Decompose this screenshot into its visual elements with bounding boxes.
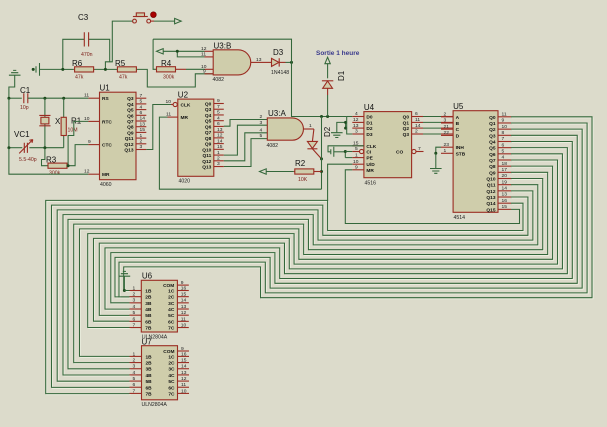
svg-text:Q12: Q12	[202, 159, 211, 165]
svg-text:ULN2804A: ULN2804A	[142, 402, 168, 408]
svg-text:Q10: Q10	[202, 147, 211, 153]
resistor R2 body	[295, 169, 314, 174]
wire RTC link	[68, 121, 88, 165]
svg-text:MR: MR	[102, 172, 110, 178]
svg-text:Q0: Q0	[403, 115, 410, 121]
svg-text:6: 6	[217, 121, 220, 127]
svg-text:Q6: Q6	[205, 124, 212, 130]
svg-text:Q4: Q4	[127, 102, 134, 108]
wire R4 out	[186, 68, 205, 70]
resistor R5 body	[117, 67, 136, 72]
svg-text:11: 11	[502, 112, 507, 118]
svg-text:Sortie 1 heure: Sortie 1 heure	[316, 50, 360, 57]
resistor R6	[74, 68, 75, 70]
svg-text:1: 1	[444, 148, 447, 154]
svg-text:4: 4	[217, 115, 220, 121]
svg-text:7: 7	[133, 388, 136, 394]
wire to 1B	[124, 290, 129, 292]
wire U5.Q4 serpentine to driver input	[106, 142, 573, 310]
svg-text:Q1: Q1	[489, 121, 496, 127]
wire D1 to node	[327, 95, 329, 117]
svg-text:Q9: Q9	[489, 170, 496, 176]
wire to CI pin	[345, 151, 352, 153]
svg-text:3: 3	[217, 161, 220, 167]
svg-text:6C: 6C	[168, 319, 175, 325]
wire R3 to CTC	[68, 145, 89, 166]
svg-text:15: 15	[140, 127, 146, 133]
U2 right pins	[214, 103, 224, 105]
svg-text:3C: 3C	[168, 301, 175, 307]
svg-text:Q15: Q15	[486, 207, 495, 213]
svg-text:3: 3	[133, 364, 136, 370]
ground GND1	[9, 70, 21, 75]
svg-text:4020: 4020	[179, 179, 191, 185]
wire stem	[123, 276, 125, 290]
svg-text:9: 9	[217, 98, 220, 104]
svg-text:3: 3	[260, 120, 263, 126]
wire Q13 to CLK	[146, 105, 171, 150]
svg-text:300k: 300k	[163, 75, 175, 81]
wire R1 bottom lead	[63, 136, 65, 148]
svg-text:9: 9	[88, 139, 91, 145]
svg-text:B: B	[456, 121, 460, 127]
svg-text:5.5-40p: 5.5-40p	[19, 157, 37, 163]
svg-text:CO: CO	[396, 150, 403, 156]
wire cell to CI	[334, 151, 346, 153]
svg-text:6: 6	[140, 110, 143, 116]
svg-text:U7: U7	[142, 338, 153, 347]
svg-text:3: 3	[133, 298, 136, 304]
svg-text:20: 20	[502, 173, 508, 179]
svg-text:5B: 5B	[146, 379, 153, 385]
svg-text:R5: R5	[115, 59, 126, 68]
svg-text:4C: 4C	[168, 307, 175, 313]
svg-text:1: 1	[140, 133, 143, 139]
svg-text:D: D	[456, 133, 460, 139]
svg-text:14: 14	[140, 116, 146, 122]
svg-text:1: 1	[133, 285, 136, 291]
svg-text:13: 13	[353, 123, 359, 129]
svg-text:47k: 47k	[119, 75, 128, 81]
U6 pins	[130, 290, 142, 292]
svg-text:10K: 10K	[298, 177, 308, 183]
svg-text:10: 10	[166, 99, 172, 105]
svg-text:5B: 5B	[145, 313, 152, 319]
wire cell to rail	[40, 68, 63, 70]
svg-text:1: 1	[133, 351, 136, 357]
resistor R5	[117, 68, 118, 70]
U4 CO pin	[412, 149, 416, 153]
svg-text:Q9: Q9	[205, 142, 212, 148]
svg-text:U2: U2	[178, 90, 189, 99]
U3:A output pin1 and diode D2	[304, 128, 314, 130]
svg-text:47k: 47k	[75, 75, 84, 81]
svg-text:14: 14	[181, 364, 187, 370]
U5 left pins	[441, 116, 453, 118]
wire U4.Q0 to U5	[423, 116, 441, 118]
U3:B input pins	[205, 50, 214, 52]
U4 left pins	[352, 116, 364, 118]
svg-text:11: 11	[181, 316, 186, 322]
svg-text:U3:B: U3:B	[214, 41, 232, 50]
svg-text:12: 12	[84, 169, 90, 175]
svg-text:Q7: Q7	[489, 158, 496, 164]
svg-text:Q2: Q2	[489, 127, 496, 133]
svg-text:5C: 5C	[168, 379, 175, 385]
svg-text:4B: 4B	[145, 307, 152, 313]
wire U5.Q1 serpentine to driver input	[120, 124, 588, 298]
wire D1-D2 tie	[345, 122, 347, 128]
svg-text:21: 21	[444, 124, 450, 130]
button red indicator	[151, 12, 157, 18]
svg-text:470n: 470n	[81, 52, 93, 58]
svg-text:CTC: CTC	[102, 143, 112, 149]
svg-text:300k: 300k	[49, 171, 61, 177]
wire U5.Q9 serpentine to driver input	[75, 173, 549, 363]
wire U5.Q3 serpentine to driver input	[112, 136, 578, 303]
wire INH down	[436, 147, 441, 153]
svg-text:D2: D2	[366, 126, 372, 132]
wire UD join	[328, 164, 353, 200]
wire VC1 to R3	[42, 148, 48, 166]
wire D0-D3 vertical	[347, 117, 353, 135]
svg-text:INH: INH	[456, 145, 465, 151]
IC U4 body	[364, 112, 412, 178]
svg-text:Q10: Q10	[486, 177, 495, 183]
svg-text:RTC: RTC	[102, 119, 112, 125]
svg-text:U6: U6	[142, 271, 153, 280]
svg-text:Q6: Q6	[127, 113, 134, 119]
wire Q12-p4	[224, 133, 267, 161]
wire rail to R6	[63, 68, 74, 70]
U4 right pins / wires to U5	[412, 116, 423, 118]
diode D1	[322, 80, 333, 82]
svg-text:Q14: Q14	[486, 201, 495, 207]
wire to PE pin	[345, 157, 352, 159]
svg-text:5: 5	[133, 376, 136, 382]
svg-text:4C: 4C	[168, 373, 175, 379]
svg-text:CLK: CLK	[366, 144, 376, 150]
svg-text:2C: 2C	[168, 295, 175, 301]
svg-text:1C: 1C	[168, 354, 175, 360]
wire D3 cathode wire	[286, 61, 292, 63]
svg-text:D2: D2	[323, 126, 332, 137]
svg-text:Q3: Q3	[489, 133, 496, 139]
svg-text:9: 9	[355, 165, 358, 171]
wire to D0	[347, 116, 353, 118]
wire U5.Q13 serpentine to driver input	[53, 198, 529, 388]
svg-text:STB: STB	[456, 151, 466, 157]
wire terminal to D1	[327, 64, 329, 79]
wire feedback to R4	[153, 39, 155, 69]
diode D3 (1N4148)	[264, 61, 272, 63]
svg-text:13: 13	[256, 57, 262, 63]
wire to pin11	[177, 51, 204, 57]
svg-text:Q2: Q2	[403, 126, 410, 132]
svg-text:Q4: Q4	[205, 113, 212, 119]
svg-text:Q8: Q8	[205, 136, 212, 142]
wire U5.Q5 serpentine to driver input	[100, 149, 568, 317]
svg-text:1B: 1B	[146, 354, 153, 360]
U2 left pins	[173, 102, 177, 106]
svg-text:Q7: Q7	[205, 130, 212, 136]
svg-text:2B: 2B	[146, 361, 153, 367]
svg-text:2: 2	[444, 112, 447, 118]
wire ground to C1 row	[9, 75, 15, 98]
IC U7 body	[142, 346, 178, 400]
svg-text:Q5: Q5	[127, 108, 134, 114]
svg-text:9: 9	[181, 346, 184, 352]
ground GND2	[331, 133, 343, 138]
svg-text:D3: D3	[273, 48, 284, 57]
wire crystal vertical	[44, 98, 46, 148]
svg-text:6C: 6C	[168, 385, 175, 391]
svg-text:Q12: Q12	[486, 189, 495, 195]
svg-text:19: 19	[502, 179, 508, 185]
svg-text:2C: 2C	[168, 361, 175, 367]
resistor R3 body	[48, 163, 67, 168]
wire Q6-p2	[224, 120, 267, 127]
svg-text:2: 2	[260, 114, 263, 120]
svg-text:1: 1	[309, 123, 312, 129]
U1 right pins	[136, 97, 146, 99]
svg-text:Q9: Q9	[127, 130, 134, 136]
svg-text:2: 2	[415, 129, 418, 135]
svg-text:5: 5	[355, 146, 358, 152]
svg-text:14: 14	[502, 186, 508, 192]
svg-text:11: 11	[415, 117, 420, 123]
svg-text:D1: D1	[337, 70, 346, 81]
ground GND3	[430, 169, 442, 174]
svg-text:9: 9	[181, 280, 184, 286]
svg-text:3: 3	[140, 144, 143, 150]
svg-text:10: 10	[353, 159, 359, 165]
svg-text:13: 13	[217, 127, 223, 133]
svg-text:7B: 7B	[145, 326, 152, 332]
wire U5.Q0 serpentine to driver input	[125, 118, 593, 299]
svg-text:1C: 1C	[168, 289, 175, 295]
svg-text:VC1: VC1	[14, 130, 30, 139]
svg-text:5C: 5C	[168, 313, 175, 319]
svg-text:1B: 1B	[145, 289, 152, 295]
svg-text:Q8: Q8	[127, 125, 134, 131]
svg-text:6B: 6B	[146, 385, 153, 391]
svg-text:U3:A: U3:A	[268, 109, 286, 118]
svg-text:C: C	[456, 127, 460, 133]
svg-text:D0: D0	[366, 115, 372, 121]
svg-text:R2: R2	[295, 159, 306, 168]
svg-text:3: 3	[444, 118, 447, 124]
wire CI-PE tie	[344, 152, 346, 158]
wire C3 right lead	[89, 39, 110, 69]
svg-text:Q11: Q11	[202, 153, 211, 159]
svg-text:1: 1	[355, 152, 358, 158]
svg-text:15: 15	[502, 204, 508, 210]
wire left rail	[8, 98, 10, 148]
wire U4.Q2 to U5	[423, 127, 441, 129]
IC U1 body	[100, 92, 137, 180]
svg-text:2: 2	[140, 139, 143, 145]
svg-text:Q12: Q12	[124, 142, 133, 148]
svg-text:U4: U4	[364, 103, 375, 112]
output terminal (right arrow)	[175, 18, 182, 23]
svg-text:7: 7	[502, 136, 505, 142]
svg-text:Q11: Q11	[487, 183, 496, 189]
op-gate U3:B (4082 AND)	[213, 50, 251, 75]
svg-text:13: 13	[140, 121, 146, 127]
IC U2 body	[178, 99, 214, 176]
svg-text:7C: 7C	[168, 391, 175, 397]
svg-text:15: 15	[181, 292, 187, 298]
svg-text:13: 13	[181, 370, 187, 376]
wire MR wire	[9, 148, 89, 175]
U3:B output pin 13	[251, 61, 264, 63]
svg-text:12: 12	[217, 133, 223, 139]
svg-text:A: A	[456, 115, 460, 121]
resistor R2	[260, 169, 267, 174]
svg-text:10: 10	[181, 388, 187, 394]
svg-text:Q11: Q11	[125, 136, 134, 142]
svg-text:R3: R3	[46, 156, 57, 165]
svg-text:1: 1	[217, 150, 220, 156]
svg-text:3B: 3B	[145, 301, 152, 307]
svg-text:Q13: Q13	[202, 165, 211, 171]
svg-text:5: 5	[133, 310, 136, 316]
wire U5.Q7 serpentine to driver input	[89, 161, 559, 329]
wire C1 left lead	[9, 97, 22, 99]
svg-text:16: 16	[502, 198, 508, 204]
svg-text:4: 4	[140, 104, 143, 110]
svg-text:6: 6	[415, 111, 418, 117]
svg-text:Q3: Q3	[205, 107, 212, 113]
svg-text:4B: 4B	[146, 373, 153, 379]
svg-text:2B: 2B	[145, 295, 152, 301]
wire button left wire	[110, 21, 134, 62]
svg-text:22: 22	[444, 130, 450, 136]
svg-text:7C: 7C	[168, 326, 175, 332]
svg-text:7: 7	[217, 104, 220, 110]
svg-text:12: 12	[181, 310, 187, 316]
svg-text:16: 16	[181, 285, 187, 291]
svg-text:4: 4	[355, 111, 358, 117]
svg-text:Q13: Q13	[486, 195, 495, 201]
wire Q15-MR	[345, 170, 519, 224]
svg-text:Q3: Q3	[403, 132, 410, 138]
svg-text:23: 23	[444, 142, 450, 148]
svg-text:6: 6	[502, 142, 505, 148]
wire terminal to pin12	[163, 50, 204, 52]
svg-text:7: 7	[133, 322, 136, 328]
svg-text:4516: 4516	[365, 181, 377, 187]
svg-text:14: 14	[415, 123, 421, 129]
svg-text:4: 4	[133, 304, 136, 310]
wire Q11-p3	[224, 125, 267, 155]
wire VC1 row to R1	[29, 147, 63, 149]
wire U5.Q12 serpentine to driver input	[58, 192, 534, 382]
svg-text:7: 7	[140, 93, 143, 99]
svg-text:PE: PE	[366, 156, 373, 162]
wire U4.Q3 to U5	[423, 133, 441, 135]
input terminal (left arrow) at U3:B	[157, 49, 164, 54]
svg-text:7: 7	[418, 146, 421, 152]
wire U5.Q14 serpentine to driver input	[47, 201, 524, 394]
svg-text:4082: 4082	[267, 143, 279, 149]
svg-text:CLK: CLK	[181, 103, 191, 109]
wire feedback top	[153, 39, 291, 62]
wire U5.Q8 serpentine to driver input	[81, 167, 554, 357]
wire button to terminal	[154, 20, 175, 22]
svg-text:C3: C3	[78, 13, 89, 22]
svg-text:17: 17	[502, 167, 508, 173]
svg-text:11: 11	[181, 382, 186, 388]
svg-text:Q0: Q0	[489, 115, 496, 121]
wire Q13-p5	[224, 139, 267, 167]
svg-text:4: 4	[502, 155, 505, 161]
svg-text:U1: U1	[100, 84, 111, 93]
svg-text:6B: 6B	[145, 319, 152, 325]
battery cell B1	[32, 68, 35, 71]
wire R6 to R5	[95, 68, 118, 70]
U7 pins	[130, 355, 142, 357]
svg-text:5: 5	[217, 110, 220, 116]
svg-text:12: 12	[181, 376, 187, 382]
svg-text:COM: COM	[163, 349, 174, 355]
svg-text:U/D: U/D	[366, 162, 375, 168]
svg-text:2: 2	[217, 156, 220, 162]
wire to ground	[337, 122, 346, 132]
svg-text:14: 14	[181, 298, 187, 304]
svg-text:15: 15	[181, 357, 187, 363]
svg-text:CI: CI	[366, 150, 371, 156]
svg-text:COM: COM	[163, 283, 174, 289]
op-gate U3:A (4082 AND)	[267, 118, 303, 140]
svg-text:16: 16	[181, 351, 187, 357]
svg-text:Q0: Q0	[205, 102, 212, 108]
svg-text:6: 6	[133, 382, 136, 388]
svg-text:Q3: Q3	[127, 96, 134, 102]
svg-text:U5: U5	[453, 102, 464, 111]
svg-text:MR: MR	[181, 115, 189, 121]
svg-text:RS: RS	[102, 96, 109, 102]
wire VC1 left lead	[9, 147, 22, 149]
svg-text:Q5: Q5	[205, 119, 212, 125]
svg-text:MR: MR	[366, 168, 374, 174]
svg-text:13: 13	[181, 304, 187, 310]
svg-text:10M: 10M	[68, 128, 78, 134]
svg-text:13: 13	[502, 192, 508, 198]
wire U5.Q11 serpentine to driver input	[64, 186, 539, 376]
svg-text:R6: R6	[72, 59, 83, 68]
IC U5 body	[453, 111, 498, 213]
svg-text:Q6: Q6	[489, 152, 496, 158]
wire U4.Q1 to U5	[423, 121, 441, 123]
svg-text:10: 10	[502, 124, 508, 130]
U1 left pins	[88, 97, 99, 99]
resistor R4 body	[157, 67, 176, 72]
svg-text:1N4148: 1N4148	[271, 70, 289, 76]
wire U5.Q6 serpentine to driver input	[95, 155, 564, 322]
svg-text:2: 2	[133, 292, 136, 298]
svg-text:3C: 3C	[168, 367, 175, 373]
svg-text:8: 8	[502, 130, 505, 136]
svg-text:3: 3	[355, 129, 358, 135]
wire MR reset wire	[159, 117, 321, 189]
svg-text:Q7: Q7	[127, 119, 134, 125]
wire node to D0/D3	[292, 62, 347, 116]
wire U5.Q10 serpentine to driver input	[69, 180, 544, 370]
svg-text:Q5: Q5	[489, 146, 496, 152]
wire C3 left lead	[63, 39, 85, 69]
